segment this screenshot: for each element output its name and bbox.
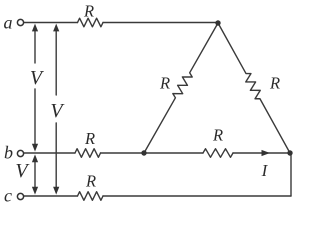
svg-text:R: R (84, 129, 95, 148)
svg-text:V: V (50, 100, 65, 122)
svg-text:R: R (159, 74, 170, 93)
resistor R3 (78, 192, 104, 201)
resistor R1 (78, 18, 104, 27)
resistor R4 on left diagonal wire (140, 21, 221, 155)
wire c bottom (24, 195, 78, 197)
svg-text:V: V (15, 160, 30, 182)
svg-text:V: V (30, 67, 45, 89)
arrowhead V3 down (32, 187, 38, 195)
arrow V3 shaft (34, 160, 36, 189)
node top (215, 20, 220, 25)
arrowhead V1 down (32, 144, 38, 152)
wire b right (233, 152, 290, 154)
node bottom-right (287, 150, 292, 155)
svg-text:b: b (4, 143, 13, 163)
arrowhead I right (262, 150, 271, 156)
svg-text:R: R (212, 126, 223, 145)
wire a to top node (103, 22, 218, 24)
svg-text:R: R (85, 172, 96, 191)
resistor R2 (75, 149, 101, 158)
svg-text:c: c (4, 186, 12, 206)
wire right vertical (290, 154, 292, 197)
wire c right (103, 195, 291, 197)
wire b middle (101, 152, 204, 154)
arrowhead V1 up (32, 24, 38, 32)
terminal b (17, 150, 23, 156)
svg-text:R: R (269, 74, 280, 93)
terminal c (17, 193, 23, 199)
wire a top horizontal (24, 22, 78, 24)
svg-text:a: a (4, 13, 13, 33)
node bottom-left (141, 150, 146, 155)
arrowhead V3 up (32, 154, 38, 162)
svg-text:R: R (83, 1, 94, 20)
resistor R6 (203, 149, 233, 158)
arrow V2 shaft (55, 28, 57, 95)
arrowhead V2 up (53, 24, 59, 32)
resistor R5 on right diagonal wire (214, 21, 293, 155)
wire b left (24, 152, 75, 154)
arrowhead V2 down (53, 187, 59, 195)
terminal a (17, 19, 23, 25)
svg-text:I: I (261, 161, 269, 180)
arrow V1 shaft (34, 28, 36, 63)
